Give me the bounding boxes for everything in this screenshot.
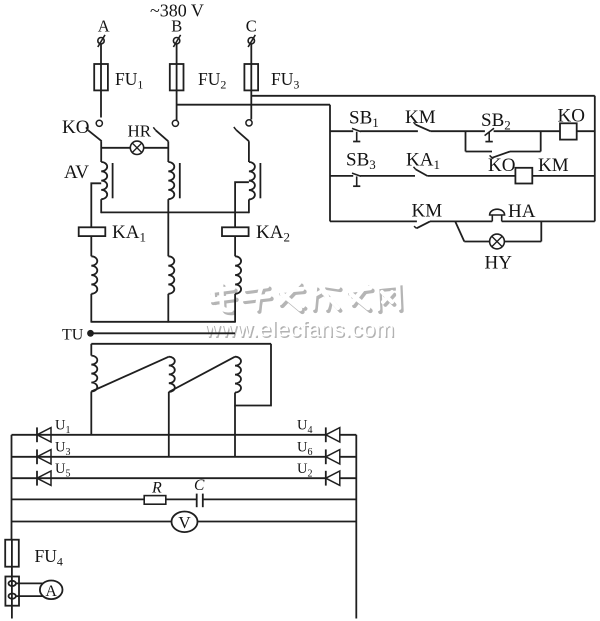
label KM (rung3) <box>412 201 443 222</box>
label SB1 <box>349 107 379 130</box>
label KA2 <box>256 222 290 245</box>
label FU4 <box>35 546 63 569</box>
switch KO pole B <box>153 120 178 141</box>
label FU1 <box>115 69 143 92</box>
terminal C <box>248 35 255 47</box>
switch KO pole C <box>234 120 252 141</box>
label KO (main switch) <box>62 117 89 138</box>
wire control right rail <box>594 96 596 222</box>
wire rectifier row 2 right <box>340 456 357 458</box>
svg-text:AV: AV <box>64 162 89 183</box>
wire rung1 left <box>330 130 353 132</box>
wire secondary B to bus <box>167 294 169 323</box>
wire shunt to ammeter upper <box>16 582 43 584</box>
label TU <box>62 327 84 344</box>
wire FU2 to switch pole B <box>176 90 178 120</box>
svg-text:A: A <box>45 583 57 600</box>
wire B line to secondary coil B <box>167 212 169 256</box>
fuse FU2 <box>170 64 184 90</box>
lamp HY <box>490 234 505 249</box>
relay coil KA2 <box>222 227 249 236</box>
coil KM <box>515 168 532 184</box>
svg-text:HR: HR <box>128 122 152 141</box>
resistor R <box>144 496 166 505</box>
wire KA2 to secondary coil C <box>234 236 236 256</box>
wire rectifier row 3 <box>12 477 326 479</box>
wire TU diagonal 2 <box>169 357 235 392</box>
diode U5 <box>37 471 51 486</box>
wire TU coil3 to row2 <box>234 406 236 457</box>
wire row 5 right <box>198 521 357 523</box>
AV secondary coil B <box>168 256 174 294</box>
label C <box>246 17 257 36</box>
TU coil 2 <box>169 357 175 392</box>
wire row 5 left <box>12 521 172 523</box>
wire left bus <box>11 435 13 540</box>
wire bypass down left <box>465 131 467 151</box>
contact KM rung3 <box>414 221 430 228</box>
wire switch B to AV coil B <box>167 141 169 162</box>
wire rung2 left <box>330 175 353 177</box>
wire KM contact to HA <box>430 220 492 222</box>
wire FU4 to shunt box <box>11 567 13 577</box>
wire FU1 to switch pole A <box>100 90 102 117</box>
wire rectifier row 2 <box>12 456 326 458</box>
label KM (coil) <box>538 155 569 176</box>
node TU dot <box>87 330 94 337</box>
wire C to right bus <box>203 498 356 500</box>
svg-text:A: A <box>98 17 110 36</box>
wire TU delta closing link <box>235 344 271 406</box>
TU coil 1 <box>91 356 97 392</box>
wire through FU2 <box>176 64 178 90</box>
wire R to C <box>166 498 197 500</box>
AV secondary coil C <box>235 256 241 294</box>
wire FU2 to control left rail <box>177 104 330 106</box>
ammeter A <box>40 581 63 600</box>
svg-text:B: B <box>171 17 182 36</box>
wire through shunt box <box>11 577 13 619</box>
label KO (coil) <box>558 106 585 127</box>
fuse FU1 <box>94 64 108 90</box>
diode U6 <box>326 449 340 464</box>
wire HA to rail <box>502 220 595 222</box>
svg-text:KM: KM <box>405 107 436 128</box>
pushbutton SB2 <box>485 128 494 141</box>
svg-text:R: R <box>151 480 162 497</box>
wire row 4 left <box>12 498 145 500</box>
label U3 <box>55 439 70 458</box>
wire SB2 to KO coil <box>494 130 560 132</box>
wire phase A terminal to FU1 <box>100 44 102 64</box>
svg-text:KO: KO <box>62 117 89 138</box>
svg-text:C: C <box>194 477 205 494</box>
terminal A <box>98 35 105 47</box>
label KA1 <box>112 222 146 245</box>
wire shunt to ammeter lower <box>16 595 43 597</box>
wire phase C terminal to FU3 <box>250 44 252 64</box>
wire through FU3 <box>250 64 252 90</box>
voltmeter V <box>172 512 198 533</box>
wire TU line <box>91 332 236 334</box>
wire secondary C to bus <box>234 294 236 323</box>
wire FU3 to control right rail <box>251 95 595 97</box>
AV primary coil A <box>101 162 107 199</box>
svg-text:KO: KO <box>488 155 515 176</box>
label R <box>151 480 162 497</box>
shunt terminal upper <box>9 581 16 586</box>
wire TU diagonal 1 <box>91 357 169 392</box>
wire HR lamp right <box>144 147 169 149</box>
label ~380 V <box>150 1 204 21</box>
relay coil KA1 <box>79 227 106 236</box>
label FU3 <box>271 69 299 92</box>
switch KO pole A <box>86 120 103 141</box>
wire control left rail <box>329 105 331 222</box>
wire bypass up right <box>540 131 542 151</box>
diode U1 <box>37 427 51 442</box>
wire secondary A to bus <box>90 294 92 323</box>
AV core bar A <box>112 163 114 198</box>
label B <box>171 17 182 36</box>
label U1 <box>55 417 70 436</box>
wire KM to SB2 <box>430 130 485 132</box>
wire SB1 to KM <box>360 130 418 132</box>
wire AV coil A to bottom bus <box>100 199 102 213</box>
svg-text:HA: HA <box>508 201 536 222</box>
label HY <box>485 253 513 274</box>
fuse FU4 <box>5 540 19 567</box>
AV secondary coil A <box>91 256 97 294</box>
label SB3 <box>346 150 376 173</box>
wire TU top bus <box>91 343 271 345</box>
diode U4 <box>326 427 340 442</box>
wire KA1 to secondary coil A <box>90 236 92 256</box>
label FU2 <box>198 69 226 92</box>
fuse FU3 <box>244 64 258 90</box>
wire KM coil to rail <box>532 175 595 177</box>
svg-text:KM: KM <box>538 155 569 176</box>
label KM (rung1) <box>405 107 436 128</box>
AV primary coil C <box>249 162 255 199</box>
diode U3 <box>37 449 51 464</box>
wire phase B terminal to FU2 <box>176 44 178 64</box>
contact KA1 <box>414 167 428 176</box>
wire TU bus to coil 1 <box>90 344 92 356</box>
coil KO <box>560 123 577 139</box>
label HR <box>128 122 152 141</box>
AV core bar B <box>179 163 181 198</box>
wire tap A to KA1 <box>91 183 101 227</box>
wire through FU1 <box>100 64 102 90</box>
svg-text:TU: TU <box>62 327 84 344</box>
wire switch A to AV coil A <box>100 141 102 162</box>
wire rung3 <box>330 220 417 222</box>
shunt terminal lower <box>9 594 16 599</box>
label KO (latch contact) <box>488 155 515 176</box>
label U2 <box>297 461 312 480</box>
wire bypass lower right <box>510 151 541 153</box>
wire HY branch left <box>464 241 489 243</box>
wire AV coil C to bottom bus <box>248 199 250 213</box>
diode U2 <box>326 471 340 486</box>
svg-text:KM: KM <box>412 201 443 222</box>
wire FU3 to switch pole C <box>250 90 252 119</box>
wire KA1 to KM coil <box>427 175 515 177</box>
label KA1 (contact) <box>406 150 440 173</box>
label U4 <box>297 417 312 436</box>
wire secondary bottom bus <box>91 321 235 323</box>
svg-text:C: C <box>246 17 257 36</box>
wire AV coil B to bottom bus <box>167 199 169 213</box>
wire rectifier row 1 right <box>340 434 357 436</box>
TU coil 3 <box>235 357 241 393</box>
wire HY branch slant <box>455 221 464 241</box>
AV primary coil B <box>168 162 174 199</box>
label AV <box>64 162 89 183</box>
label SB2 <box>481 110 511 133</box>
wire tap C to KA2 <box>235 182 249 227</box>
terminal B <box>173 35 180 47</box>
label C <box>194 477 205 494</box>
label HA <box>508 201 536 222</box>
wire bypass lower left <box>466 151 493 153</box>
lamp HR <box>130 141 143 154</box>
watermark <box>204 283 402 343</box>
wire rectifier row 1 <box>12 434 326 436</box>
label A <box>98 17 110 36</box>
label U6 <box>297 439 312 458</box>
contact KM rung1 <box>414 122 431 131</box>
pushbutton SB3 <box>352 173 361 186</box>
wire KO coil to rail <box>577 130 595 132</box>
bell HA <box>490 209 505 221</box>
wire HY branch right <box>504 241 541 243</box>
wire TU coil1 to row1 <box>90 392 92 435</box>
svg-text:www.elecfans.com: www.elecfans.com <box>204 316 395 341</box>
wire SB3 to KA1 <box>360 175 415 177</box>
wire switch C to AV coil C <box>248 141 250 162</box>
svg-text:HY: HY <box>485 253 513 274</box>
wire through FU4 <box>11 540 13 567</box>
label U5 <box>55 461 70 480</box>
pushbutton SB1 <box>352 128 361 141</box>
wire right bus <box>355 435 357 619</box>
contact KO bypass <box>490 152 510 158</box>
capacitor C <box>197 494 203 508</box>
wire rectifier row 3 right <box>340 477 357 479</box>
wire AV bottom bus <box>101 211 249 213</box>
AV core bar C <box>259 163 261 198</box>
svg-text:V: V <box>178 513 191 532</box>
wire HY branch up <box>540 221 542 241</box>
shunt box <box>5 577 19 606</box>
wire HR lamp left <box>101 147 130 149</box>
wire TU coil2 to row2 <box>168 392 170 457</box>
